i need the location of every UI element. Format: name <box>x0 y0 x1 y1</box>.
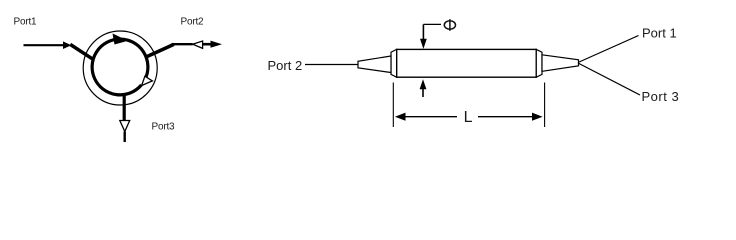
svg-text:Port3: Port3 <box>152 121 176 132</box>
wire Port2 horizontal <box>172 43 193 45</box>
left end cap <box>391 49 397 77</box>
dimension L line left with arrow <box>395 113 457 121</box>
wire Port3 vertical from circle <box>123 94 126 121</box>
wire Port2 diagonal from circle <box>146 44 174 57</box>
connector open arrowhead Port3 <box>120 121 130 132</box>
dimension phi leader <box>420 24 441 49</box>
svg-text:Port 1: Port 1 <box>642 25 677 40</box>
connector open arrowhead Port2 <box>193 41 203 48</box>
svg-text:Port2: Port2 <box>181 16 205 27</box>
dimension phi label <box>444 19 455 31</box>
circulator inner circle (thick arc with gap at open arrowhead) <box>92 39 148 95</box>
circulator outer circle <box>83 31 157 105</box>
wire Port1 input arrow <box>24 41 72 49</box>
fiber Port 3 <box>578 63 640 95</box>
device body <box>397 49 537 77</box>
svg-text:Port 3: Port 3 <box>642 89 680 104</box>
wire Port2 output arrow <box>203 41 222 48</box>
right end cap <box>536 49 542 77</box>
svg-text:L: L <box>464 109 473 126</box>
dimension L line right with arrow <box>478 113 543 121</box>
wire Port1 diagonal to circle <box>70 44 94 59</box>
right boot cone <box>542 55 579 72</box>
dimension phi lower arrow <box>420 79 427 97</box>
circulation arrowhead (open, lower right of inner circle) <box>142 76 153 85</box>
dimension L extension line left <box>392 83 394 128</box>
fiber Port 2 <box>305 64 358 66</box>
svg-text:Port1: Port1 <box>14 16 38 27</box>
svg-text:Port 2: Port 2 <box>268 58 303 73</box>
circulation arrowhead (filled, top of inner circle) <box>113 34 129 45</box>
fiber Port 1 <box>578 36 639 63</box>
left boot cone <box>358 56 391 73</box>
dimension L extension line right <box>544 83 546 128</box>
wire Port3 tail <box>123 132 125 143</box>
